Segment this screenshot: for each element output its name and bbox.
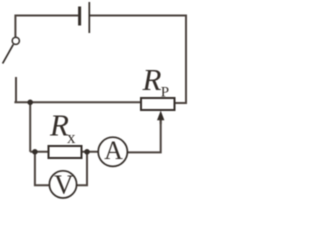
- battery cell: short thick negative plate: [78, 7, 81, 26]
- wire bottom of upper loop: [14, 101, 141, 103]
- resistor Rx box: [49, 146, 82, 158]
- switch pivot circle: [12, 37, 19, 44]
- battery cell: long thin positive plate: [88, 2, 90, 33]
- svg-text:A: A: [104, 136, 123, 165]
- wire voltmeter right branch: [77, 152, 87, 186]
- wire battery to top-right corner and down right side: [90, 16, 186, 104]
- wire junction drop to Rx row: [29, 102, 31, 152]
- svg-text:R: R: [49, 108, 69, 143]
- node junction dot Rx left: [32, 149, 38, 155]
- svg-text:P: P: [161, 85, 169, 101]
- wire voltmeter left branch: [35, 152, 50, 186]
- node junction dot at top: [27, 100, 33, 106]
- ammeter A: [98, 137, 127, 166]
- svg-text:R: R: [142, 62, 162, 97]
- rheostat RP box: [141, 98, 175, 110]
- wire Rx row left: [30, 151, 48, 153]
- wire top-left to battery: [15, 15, 78, 17]
- svg-text:x: x: [67, 128, 76, 147]
- voltmeter V: [49, 171, 76, 198]
- switch blade: [3, 44, 14, 63]
- rheostat wiper arrow: [160, 119, 162, 124]
- wire left vertical to switch: [14, 15, 16, 37]
- svg-text:V: V: [54, 170, 74, 200]
- node junction dot Rx right: [84, 149, 90, 155]
- wire switch contact stub: [15, 77, 17, 102]
- wire ammeter to rheostat wiper: [128, 120, 161, 153]
- wire Rx to ammeter: [82, 151, 99, 153]
